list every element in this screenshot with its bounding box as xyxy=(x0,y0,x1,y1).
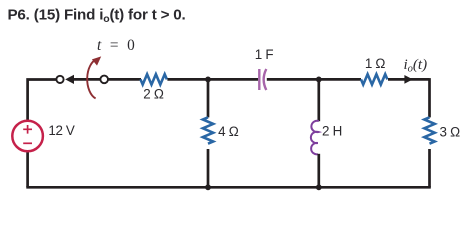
svg-text:1 Ω: 1 Ω xyxy=(365,56,386,71)
svg-text:2 H: 2 H xyxy=(322,124,342,139)
svg-text:12 V: 12 V xyxy=(48,123,74,138)
current arrow i_o(t) (black, pointing right) xyxy=(404,75,412,84)
resistor R 2ohm (blue zigzag, horizontal) xyxy=(141,74,167,84)
switch terminal circle right xyxy=(100,76,108,84)
node C junction dot (bottom of 4-ohm branch) xyxy=(205,184,211,190)
switch blade wire with left arrowhead xyxy=(73,78,100,81)
resistor R 1ohm (blue zigzag, horizontal) xyxy=(361,74,387,84)
wire top-left corner to switch left terminal xyxy=(28,80,56,188)
svg-text:2 Ω: 2 Ω xyxy=(143,87,164,102)
right rail top segment xyxy=(428,78,431,117)
wire 1-ohm to top-right corner xyxy=(388,78,430,81)
node D junction dot (bottom of 2H branch) xyxy=(316,184,322,190)
capacitor C 1F curved plate xyxy=(264,69,267,90)
right rail bottom segment xyxy=(428,149,431,187)
switch arc arrowhead (dark red) xyxy=(92,56,101,65)
capacitor C 1F left plate xyxy=(258,69,260,90)
bottom wire xyxy=(26,186,431,189)
branch: 4-ohm resistor vertical wire top xyxy=(207,79,210,117)
node A junction dot (top of 4-ohm branch) xyxy=(205,77,211,83)
branch: 2H inductor vertical wire bottom xyxy=(317,154,320,188)
wire switch to 2-ohm resistor xyxy=(109,78,142,81)
switch terminal circle left xyxy=(56,76,63,83)
switch closing arc (dark red) xyxy=(87,59,97,98)
voltage source V1 12V circle xyxy=(12,121,43,152)
voltage source minus sign xyxy=(23,142,32,144)
svg-text:P6. (15) Find io(t) for t > 0.: P6. (15) Find io(t) for t > 0. xyxy=(8,7,186,26)
wire 2-ohm to node A xyxy=(167,78,258,81)
svg-text:4 Ω: 4 Ω xyxy=(218,124,239,139)
wire capacitor to node B xyxy=(267,78,361,81)
svg-text:1 F: 1 F xyxy=(255,47,274,62)
node B junction dot (top of 2H branch) xyxy=(316,77,322,83)
branch: 2H inductor vertical wire top xyxy=(317,79,320,121)
svg-text:io(t): io(t) xyxy=(404,57,428,75)
svg-text:t = 0: t = 0 xyxy=(97,37,137,54)
inductor L 2H (purple coil) xyxy=(311,121,319,155)
branch: 4-ohm resistor vertical wire bottom xyxy=(207,149,210,187)
switch arrowhead (black, pointing left) xyxy=(65,75,74,84)
resistor R 4ohm (blue zigzag, vertical) xyxy=(203,117,213,143)
resistor R 3ohm (blue zigzag, vertical) xyxy=(424,117,434,143)
voltage source plus sign xyxy=(23,125,32,134)
svg-text:3 Ω: 3 Ω xyxy=(440,124,461,139)
